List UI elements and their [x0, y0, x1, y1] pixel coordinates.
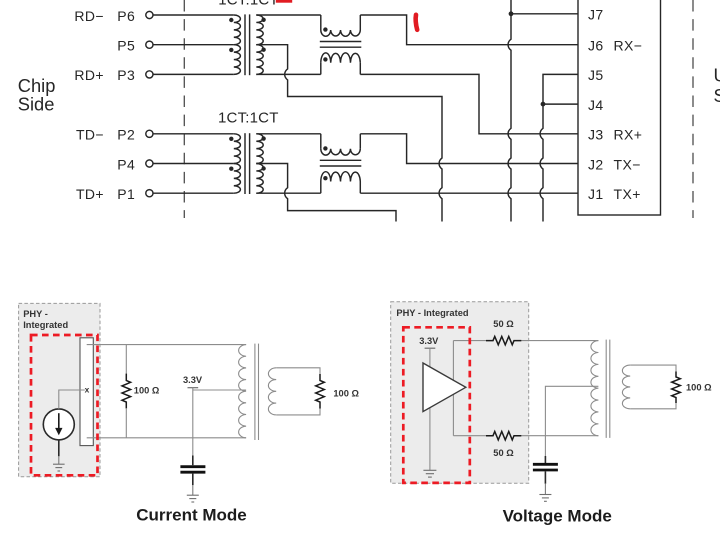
wire RX transformer secondary top to choke: [256, 14, 321, 16]
svg-text:Integrated: Integrated: [23, 320, 68, 330]
wire pin P6 to transformer: [153, 14, 234, 16]
svg-text:50 Ω: 50 Ω: [493, 319, 514, 329]
svg-text:J5: J5: [588, 67, 604, 83]
capacitor C2: [533, 463, 558, 466]
wire J7 stub: [511, 13, 578, 15]
svg-text:Current Mode: Current Mode: [136, 506, 247, 525]
svg-text:P4: P4: [117, 156, 135, 172]
ground (C2): [539, 494, 551, 496]
transformer T1 (RX) secondary winding upper: [256, 15, 263, 45]
junction dot J7: [509, 11, 514, 16]
user-side boundary dashed line: [692, 0, 694, 218]
PHY-Integrated block (Current Mode): [19, 303, 100, 476]
transformer T3 secondary winding: [268, 368, 276, 415]
svg-text:1CT:1CT: 1CT:1CT: [218, 109, 279, 126]
svg-text:Voltage Mode: Voltage Mode: [503, 506, 612, 525]
ground (C1): [187, 494, 199, 496]
driver amplifier U1: [423, 363, 466, 412]
common-mode choke L2 (TX) bottom winding: [320, 182, 322, 194]
wire J4 stub: [543, 103, 578, 105]
svg-text:J4: J4: [588, 97, 604, 113]
wire TX transformer secondary top to choke: [256, 133, 321, 135]
transformer T2 (TX) secondary winding lower: [256, 164, 263, 194]
transformer T2 (TX) primary phase dots: [229, 137, 233, 141]
wire pin P3 to transformer: [153, 73, 234, 75]
svg-text:P6: P6: [117, 8, 135, 24]
common-mode choke L2 (TX) core: [320, 159, 362, 161]
ground (current source): [53, 463, 65, 465]
resistor 100 ohm (load, Current Mode): [316, 374, 325, 409]
wire center tap (Voltage Mode): [545, 386, 598, 456]
svg-text:RX+: RX+: [614, 127, 643, 143]
wire pin P1 to transformer: [153, 192, 234, 194]
common-mode choke L2 (TX) top winding: [320, 134, 322, 149]
wire top differential line (Current Mode): [87, 344, 246, 346]
wire J5/J4 vertical bus: [540, 74, 578, 221]
resistor 50 ohm (bottom): [486, 432, 521, 440]
ground (3.3V supply): [423, 469, 436, 471]
red annotation mark 1: [416, 15, 418, 30]
wire bottom differential line (Current Mode): [87, 437, 246, 439]
common-mode choke L2 (TX) phase dots: [323, 146, 327, 150]
wire current source to pin block: [59, 390, 85, 409]
svg-text:PHY - Integrated: PHY - Integrated: [396, 308, 468, 318]
wire TX choke top to J2: [360, 134, 578, 164]
svg-text:J1: J1: [588, 186, 604, 202]
wire driver output bus: [452, 341, 454, 436]
svg-text:TX−: TX−: [614, 156, 641, 172]
pin block: [80, 338, 93, 446]
svg-text:TD−: TD−: [76, 127, 104, 143]
wire center tap (Current Mode): [193, 389, 246, 391]
transformer T2 (TX) primary winding lower: [234, 164, 241, 194]
capacitor C1: [180, 465, 205, 468]
wire top differential line (Voltage Mode): [453, 340, 486, 342]
wire RX choke bottom to J3: [360, 74, 578, 133]
wire vertical bus to J7: [508, 0, 511, 222]
red annotation underline: [276, 0, 292, 3]
wire current source to ground: [58, 440, 60, 456]
current source I1: [43, 409, 74, 440]
red highlight box (Current Mode): [31, 335, 98, 475]
svg-text:User: User: [714, 65, 720, 86]
transformer T1 (RX) primary winding upper: [234, 15, 241, 45]
svg-text:PHY -: PHY -: [23, 309, 48, 319]
transformer T4 primary winding (Voltage Mode): [591, 341, 598, 436]
svg-text:100 Ω: 100 Ω: [686, 382, 712, 392]
transformer T2 (TX) primary winding upper: [234, 134, 241, 164]
svg-text:RD+: RD+: [74, 67, 104, 83]
wire TX choke bottom to J1: [360, 192, 578, 194]
svg-text:J3: J3: [588, 127, 604, 143]
transformer T3 primary winding (Current Mode): [239, 345, 246, 438]
wire RX choke top to J6: [360, 15, 578, 45]
transformer T4 core: [605, 340, 607, 438]
wire pin P2 to transformer: [153, 133, 234, 135]
chip-side boundary dashed line: [183, 0, 185, 218]
svg-text:Side: Side: [714, 85, 720, 106]
svg-text:50 Ω: 50 Ω: [493, 448, 514, 458]
wire secondary to load (Current Mode): [276, 368, 320, 375]
svg-text:P1: P1: [117, 186, 135, 202]
svg-text:100 Ω: 100 Ω: [333, 388, 359, 398]
svg-text:1CT:1CT: 1CT:1CT: [218, 0, 279, 9]
svg-text:3.3V: 3.3V: [183, 375, 203, 385]
transformer T4 secondary winding: [622, 365, 630, 409]
junction dot J4: [541, 102, 546, 107]
connector J1-J7 box: [578, 0, 661, 215]
wire pin P4 to transformer: [153, 163, 234, 165]
svg-text:P3: P3: [117, 67, 135, 83]
svg-text:TX+: TX+: [614, 186, 641, 202]
wire pin P5 to transformer: [153, 44, 234, 46]
transformer T2 (TX) secondary winding upper: [256, 134, 263, 164]
resistor 50 ohm (top): [486, 336, 521, 344]
common-mode choke L1 (RX) phase dots: [323, 27, 327, 31]
svg-text:TD+: TD+: [76, 186, 104, 202]
transformer T2 (TX) core: [244, 133, 246, 194]
svg-text:x: x: [85, 385, 90, 395]
transformer T1 (RX) secondary phase dots: [261, 18, 265, 22]
svg-text:3.3V: 3.3V: [419, 336, 439, 346]
svg-text:J6: J6: [588, 38, 604, 54]
svg-text:J7: J7: [588, 7, 604, 23]
wire TX secondary center tap: [256, 164, 396, 222]
common-mode choke L1 (RX) core: [320, 41, 362, 43]
resistor 100 ohm (load, Voltage Mode): [672, 372, 681, 404]
svg-text:100 Ω: 100 Ω: [134, 386, 160, 396]
transformer T1 (RX) primary phase dots: [229, 18, 233, 22]
wire secondary to load (Voltage Mode): [630, 365, 676, 372]
wire RX transformer secondary bottom to choke: [256, 73, 321, 75]
transformer T1 (RX) core: [244, 14, 246, 75]
PHY-Integrated block (Voltage Mode): [391, 302, 529, 483]
wire bottom differential line (Voltage Mode): [453, 435, 486, 437]
common-mode choke L1 (RX) top winding: [320, 15, 322, 30]
svg-text:Side: Side: [18, 93, 55, 114]
transformer T3 core: [254, 344, 256, 440]
wire TX transformer secondary bottom to choke: [256, 192, 321, 194]
svg-text:RD−: RD−: [74, 8, 104, 24]
svg-text:P2: P2: [117, 127, 135, 143]
svg-text:P5: P5: [117, 38, 135, 54]
transformer T2 (TX) secondary phase dots: [261, 136, 265, 140]
red highlight box (Voltage Mode): [403, 327, 470, 483]
wire RX secondary center tap: [256, 45, 442, 222]
common-mode choke L1 (RX) bottom winding: [320, 63, 322, 75]
transformer T1 (RX) secondary winding lower: [256, 45, 263, 75]
transformer T1 (RX) primary winding lower: [234, 45, 241, 75]
resistor 100 ohm (termination, Current Mode): [125, 345, 127, 374]
svg-text:J2: J2: [588, 156, 604, 172]
svg-text:RX−: RX−: [614, 38, 643, 54]
